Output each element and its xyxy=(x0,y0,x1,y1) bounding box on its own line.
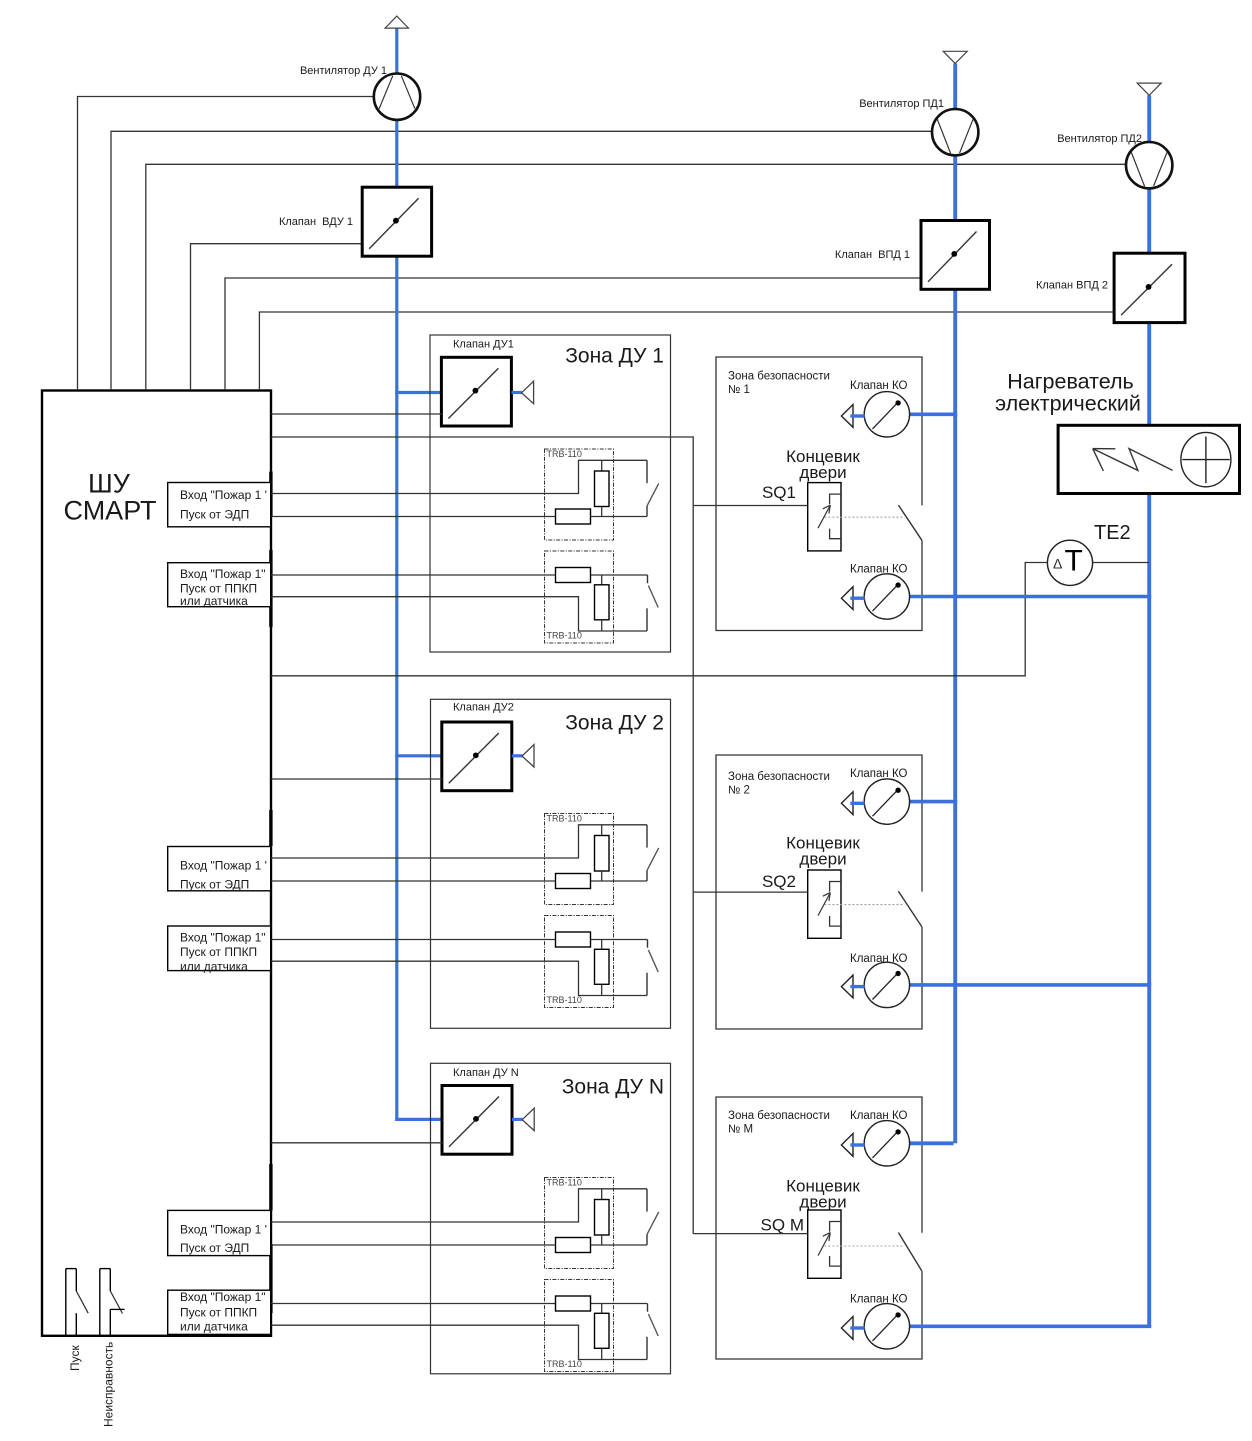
switch contact lower TRB (зона ДУ 1) xyxy=(647,575,658,631)
svg-text:TRB-110: TRB-110 xyxy=(547,1178,582,1188)
svg-text:Клапан КО: Клапан КО xyxy=(850,1294,908,1306)
svg-text:Вход "Пожар 1 ': Вход "Пожар 1 ' xyxy=(180,1223,267,1237)
blue duct line вентилятор ДУ1 exhaust riser xyxy=(395,28,398,1121)
blue stub and actuator of Клапан ДУ N xyxy=(512,1108,534,1131)
label SQ M xyxy=(761,1216,804,1235)
valve Клапан ВПД 1 xyxy=(921,221,990,290)
svg-text:TRB-110: TRB-110 xyxy=(547,1359,582,1369)
input box Вход Пожар 1 Пуск от ЭДП (zone 1) xyxy=(168,483,271,527)
switch contact lower TRB (зона ДУ N) xyxy=(647,1304,658,1360)
svg-text:Клапан ДУ1: Клапан ДУ1 xyxy=(453,338,514,350)
valve Клапан КО upper (зона № 1) xyxy=(864,392,909,437)
svg-text:Пуск от ЭДП: Пуск от ЭДП xyxy=(180,1241,249,1255)
label Клапан ВПД 2 xyxy=(1036,280,1108,292)
label Клапан ВПД 1 xyxy=(835,249,910,261)
svg-text:Вентилятор ПД1: Вентилятор ПД1 xyxy=(859,98,944,110)
svg-text:Пуск от ППКП: Пуск от ППКП xyxy=(180,1306,257,1320)
svg-text:или датчика: или датчика xyxy=(180,1320,248,1334)
svg-text:Пуск от ЭДП: Пуск от ЭДП xyxy=(180,878,249,892)
monitor module TRB-110 lower (зона ДУ 1) dashed box xyxy=(545,551,614,643)
svg-text:Вентилятор ПД2: Вентилятор ПД2 xyxy=(1057,133,1142,145)
svg-text:Зона ДУ N: Зона ДУ N xyxy=(562,1076,664,1099)
wire ШУ to Клапан ДУ N actuator xyxy=(271,1142,443,1144)
wire input 2 upper TRB (зона ДУ N) xyxy=(271,1244,647,1246)
svg-text:Вход "Пожар 1 ': Вход "Пожар 1 ' xyxy=(180,859,267,873)
arrow actuator клапан КО upper (зона № 1) xyxy=(841,405,864,428)
wire ШУ to valve ВПД1 xyxy=(225,278,921,390)
wire ШУ to fan ПД1 xyxy=(111,131,932,390)
wire feed to SQ2 xyxy=(693,891,808,893)
zone box Зона ДУ N xyxy=(431,1063,671,1374)
fan Вентилятор ПД2 xyxy=(1126,142,1172,188)
label Клапан КО lower (зона № М) xyxy=(850,1294,908,1306)
svg-text:электрический: электрический xyxy=(995,392,1141,416)
blue duct line вентилятор ПД2 riser xyxy=(1147,95,1151,1327)
svg-text:SQ M: SQ M xyxy=(761,1216,804,1235)
wire input 2 lower TRB (зона ДУ N) xyxy=(271,1325,647,1359)
wire ШУ to Клапан ДУ2 actuator xyxy=(271,778,442,780)
svg-text:Неисправность: Неисправность xyxy=(102,1342,116,1427)
switch contact lower TRB (зона ДУ 2) xyxy=(647,940,658,996)
label Зона ДУ N title xyxy=(562,1076,664,1099)
label Нагреватель электрический xyxy=(995,370,1141,416)
valve Клапан ДУ2 square xyxy=(442,722,512,791)
output contact Пуск xyxy=(66,1269,88,1336)
blue branch to клапан ДУ2 xyxy=(395,754,441,757)
contact blade SQ M xyxy=(898,1233,922,1272)
valve Клапан ДУ N square xyxy=(442,1086,512,1155)
svg-text:TRB-110: TRB-110 xyxy=(547,631,582,641)
dotted link SQ1 to contact xyxy=(825,516,905,518)
svg-text:№ 1: № 1 xyxy=(728,384,750,396)
heater Нагреватель электрический box xyxy=(1058,425,1239,493)
resistor vertical lower TRB (зона ДУ N) xyxy=(595,1304,610,1360)
valve Клапан КО lower (зона № 1) xyxy=(864,574,909,619)
label Клапан КО upper (зона № М) xyxy=(850,1110,908,1122)
switch contact upper TRB (зона ДУ N) xyxy=(647,1189,659,1245)
label Зона ДУ 1 title xyxy=(565,345,664,368)
wire ШУ to Клапан ДУ1 actuator xyxy=(271,413,442,415)
svg-text:Пуск: Пуск xyxy=(68,1345,82,1371)
label Клапан ВДУ 1 xyxy=(279,216,353,228)
air inlet arrow above вентилятор ПД1 xyxy=(943,51,967,63)
sensor TE2 delta-T circle xyxy=(1047,540,1092,585)
arrow actuator клапан КО lower (зона № М) xyxy=(841,1317,864,1340)
svg-text:Клапан ДУ2: Клапан ДУ2 xyxy=(453,702,514,714)
svg-text:Вход "Пожар 1": Вход "Пожар 1" xyxy=(180,567,266,581)
wire TE2 to ШУ xyxy=(271,563,1048,676)
blue wire riser to клапан КО upper (зона № 2) xyxy=(910,800,958,804)
resistor horizontal upper TRB (зона ДУ N) xyxy=(556,1238,591,1253)
air inlet arrow above вентилятор ПД2 xyxy=(1137,83,1161,95)
blue wire riser to клапан КО upper (зона № 1) xyxy=(910,412,958,416)
label Клапан ДУ N xyxy=(453,1067,519,1079)
blue stub and actuator of Клапан ДУ2 xyxy=(512,745,534,768)
blue branch to клапан ДУ1 xyxy=(395,391,441,394)
svg-text:Зона безопасности: Зона безопасности xyxy=(728,1110,830,1122)
valve Клапан КО upper (зона № М) xyxy=(864,1121,909,1166)
input box Вход Пожар 1 Пуск от ППКП или датчика (zone 1) xyxy=(168,563,271,608)
label Клапан КО upper (зона № 1) xyxy=(850,380,908,392)
valve Клапан ВПД 2 xyxy=(1114,253,1185,322)
wire input 1 upper TRB (зона ДУ 2) xyxy=(271,825,647,858)
resistor vertical lower TRB (зона ДУ 1) xyxy=(595,575,610,631)
svg-text:Зона безопасности: Зона безопасности xyxy=(728,771,830,783)
label ШУ СМАРТ xyxy=(64,469,157,526)
svg-text:Клапан КО: Клапан КО xyxy=(850,768,908,780)
svg-text:SQ1: SQ1 xyxy=(762,483,796,502)
door limit switch SQ M box xyxy=(808,1210,841,1278)
blue elbow branch to клапан ДУ N xyxy=(395,1118,441,1121)
svg-text:Вентилятор ДУ 1: Вентилятор ДУ 1 xyxy=(300,65,387,77)
svg-text:Клапан ВПД 2: Клапан ВПД 2 xyxy=(1036,280,1108,292)
wire ШУ feed to door switches (vertical bus) xyxy=(271,437,693,1234)
svg-text:Клапан ВДУ 1: Клапан ВДУ 1 xyxy=(279,216,353,228)
label Пуск xyxy=(68,1345,82,1371)
monitor module TRB-110 upper (зона ДУ 1) dashed box xyxy=(545,449,614,540)
label Зона безопасности № М xyxy=(728,1110,830,1136)
air outlet arrow above вентилятор ДУ1 xyxy=(385,16,408,28)
wire ШУ to valve ВДУ1 xyxy=(191,244,363,390)
label Клапан КО lower (зона № 1) xyxy=(850,564,908,576)
svg-text:двери: двери xyxy=(799,1193,846,1212)
contact blade SQ1 xyxy=(898,505,922,540)
wire ШУ to fan ПД2 xyxy=(146,164,1126,390)
wire ШУ to fan ДУ1 xyxy=(78,97,375,391)
door limit switch SQ2 box xyxy=(808,870,841,938)
resistor vertical upper TRB (зона ДУ 2) xyxy=(595,825,610,881)
valve Клапан КО upper (зона № 2) xyxy=(864,779,909,824)
svg-text:Вход "Пожар 1": Вход "Пожар 1" xyxy=(180,931,266,945)
svg-text:№ М: № М xyxy=(728,1124,753,1136)
label SQ2 xyxy=(762,872,796,891)
resistor horizontal lower TRB (зона ДУ 2) xyxy=(556,932,591,947)
svg-text:SQ2: SQ2 xyxy=(762,872,796,891)
wire input 1 lower TRB (зона ДУ 1) xyxy=(271,574,648,576)
blue duct line вентилятор ПД1 riser xyxy=(953,64,957,1144)
zone box Зона ДУ 1 xyxy=(430,335,671,652)
label Клапан КО upper (зона № 2) xyxy=(850,768,908,780)
resistor horizontal upper TRB (зона ДУ 1) xyxy=(556,509,591,524)
blue wire from клапан КО lower (зона № М) to heater duct xyxy=(910,1325,1152,1329)
svg-text:Вход "Пожар 1": Вход "Пожар 1" xyxy=(180,1290,266,1304)
wire input 2 upper TRB (зона ДУ 2) xyxy=(271,880,647,882)
arrow actuator клапан КО lower (зона № 1) xyxy=(841,587,864,610)
input box Вход Пожар 1 Пуск от ЭДП (zone N) xyxy=(168,1210,271,1255)
svg-text:Пуск от ЭДП: Пуск от ЭДП xyxy=(180,507,249,521)
zone box Зона ДУ 2 xyxy=(431,699,671,1028)
svg-text:T: T xyxy=(1065,545,1083,578)
label Зона безопасности № 1 xyxy=(728,371,830,397)
label Неисправность xyxy=(102,1342,116,1427)
label Концевик двери (зона № М) xyxy=(786,1177,860,1212)
zone box Зона безопасности № 2 xyxy=(716,755,922,1029)
svg-text:Клапан КО: Клапан КО xyxy=(850,1110,908,1122)
arrow actuator клапан КО upper (зона № 2) xyxy=(841,792,864,815)
svg-text:Вход "Пожар 1 ': Вход "Пожар 1 ' xyxy=(180,488,267,502)
wire feed to SQ1 xyxy=(693,505,808,507)
wire TE2 to heater duct xyxy=(1092,562,1149,564)
fan Вентилятор ДУ 1 xyxy=(374,74,420,120)
dotted link SQ M to contact xyxy=(825,1245,905,1247)
label Концевик двери (зона № 1) xyxy=(786,447,860,482)
svg-text:Клапан КО: Клапан КО xyxy=(850,380,908,392)
heater element zigzag arrow symbol xyxy=(1093,449,1173,471)
wire input 1 upper TRB (зона ДУ N) xyxy=(271,1189,647,1222)
heater motor circle with cross xyxy=(1181,432,1231,486)
zone box Зона безопасности № 1 xyxy=(716,357,922,631)
contact blade SQ2 xyxy=(898,891,922,927)
label Клапан ДУ2 xyxy=(453,702,514,714)
valve Клапан ВДУ 1 xyxy=(362,187,431,256)
wire input 2 upper TRB (зона ДУ 1) xyxy=(271,516,647,518)
label Вентилятор ДУ 1 xyxy=(300,65,387,77)
monitor module TRB-110 lower (зона ДУ 2) dashed box xyxy=(545,916,614,1008)
wire input 1 upper TRB (зона ДУ 1) xyxy=(271,460,647,493)
switch contact upper TRB (зона ДУ 1) xyxy=(647,460,659,516)
resistor horizontal lower TRB (зона ДУ N) xyxy=(556,1296,591,1311)
wire input 1 lower TRB (зона ДУ N) xyxy=(271,1303,648,1305)
resistor vertical lower TRB (зона ДУ 2) xyxy=(595,940,610,996)
svg-text:Клапан КО: Клапан КО xyxy=(850,564,908,576)
blue wire riser to клапан КО upper (зона № М) xyxy=(910,1141,954,1145)
resistor vertical upper TRB (зона ДУ N) xyxy=(595,1189,610,1245)
svg-text:Δ: Δ xyxy=(1053,556,1062,572)
svg-text:Зона ДУ 2: Зона ДУ 2 xyxy=(565,712,664,735)
arrow actuator клапан КО upper (зона № М) xyxy=(841,1134,864,1157)
arrow actuator клапан КО lower (зона № 2) xyxy=(841,975,864,998)
label Клапан КО lower (зона № 2) xyxy=(850,953,908,965)
label Зона безопасности № 2 xyxy=(728,771,830,797)
wire ШУ to valve ВПД2 xyxy=(259,312,1114,390)
resistor horizontal lower TRB (зона ДУ 1) xyxy=(556,568,591,583)
label Клапан ДУ1 xyxy=(453,338,514,350)
svg-text:Нагреватель: Нагреватель xyxy=(1007,370,1134,394)
blue wire from клапан КО lower (зона № 1) to heater duct xyxy=(910,595,1152,599)
svg-text:ШУ: ШУ xyxy=(88,469,131,499)
terminal block marks on ШУ СМАРТ right edge xyxy=(269,472,272,1314)
fan Вентилятор ПД1 xyxy=(932,109,978,155)
svg-text:Зона ДУ 1: Зона ДУ 1 xyxy=(565,345,664,368)
svg-text:TRB-110: TRB-110 xyxy=(547,814,582,824)
svg-text:двери: двери xyxy=(799,463,846,482)
blue wire from клапан КО lower (зона № 2) to heater duct xyxy=(910,983,1152,987)
input box Вход Пожар 1 Пуск от ППКП или датчика (zone N) xyxy=(168,1290,271,1334)
control cabinet ШУ СМАРТ xyxy=(42,391,271,1336)
switch contact upper TRB (зона ДУ 2) xyxy=(647,825,659,881)
valve Клапан ДУ1 square xyxy=(441,357,511,426)
resistor vertical upper TRB (зона ДУ 1) xyxy=(595,460,610,516)
wire feed to SQ M xyxy=(693,1233,808,1235)
svg-text:или датчика: или датчика xyxy=(180,594,248,608)
label Концевик двери (зона № 2) xyxy=(786,834,860,869)
label TE2 xyxy=(1094,522,1131,544)
monitor module TRB-110 upper (зона ДУ N) dashed box xyxy=(545,1178,614,1269)
svg-text:№ 2: № 2 xyxy=(728,785,750,797)
input box Вход Пожар 1 Пуск от ППКП или датчика (zone 2) xyxy=(168,926,271,974)
label Зона ДУ 2 title xyxy=(565,712,664,735)
svg-text:Клапан ДУ N: Клапан ДУ N xyxy=(453,1067,519,1079)
wire input 2 lower TRB (зона ДУ 2) xyxy=(271,961,647,995)
input box Вход Пожар 1 Пуск от ЭДП (zone 2) xyxy=(168,847,271,892)
svg-text:TRB-110: TRB-110 xyxy=(547,449,582,459)
valve Клапан КО lower (зона № 2) xyxy=(864,962,909,1007)
monitor module TRB-110 lower (зона ДУ N) dashed box xyxy=(545,1280,614,1372)
svg-text:Пуск от ППКП: Пуск от ППКП xyxy=(180,945,257,959)
svg-text:или датчика: или датчика xyxy=(180,960,248,974)
wire input 1 lower TRB (зона ДУ 2) xyxy=(271,939,648,941)
valve Клапан КО lower (зона № М) xyxy=(864,1304,909,1349)
door limit switch SQ1 box xyxy=(808,483,841,551)
svg-text:TE2: TE2 xyxy=(1094,522,1131,544)
zone box Зона безопасности № М xyxy=(716,1097,922,1359)
dotted link SQ2 to contact xyxy=(825,904,905,906)
monitor module TRB-110 upper (зона ДУ 2) dashed box xyxy=(545,814,614,905)
svg-text:Клапан ВПД 1: Клапан ВПД 1 xyxy=(835,249,910,261)
label SQ1 xyxy=(762,483,796,502)
svg-text:двери: двери xyxy=(799,850,846,869)
svg-text:TRB-110: TRB-110 xyxy=(547,995,582,1005)
blue stub and actuator of Клапан ДУ1 xyxy=(511,381,533,404)
output contact Неисправность xyxy=(100,1269,125,1336)
resistor horizontal upper TRB (зона ДУ 2) xyxy=(556,874,591,889)
svg-text:Зона безопасности: Зона безопасности xyxy=(728,371,830,383)
label Вентилятор ПД1 xyxy=(859,98,944,110)
wire input 2 lower TRB (зона ДУ 1) xyxy=(271,597,647,631)
label Вентилятор ПД2 xyxy=(1057,133,1142,145)
svg-text:СМАРТ: СМАРТ xyxy=(64,496,157,526)
